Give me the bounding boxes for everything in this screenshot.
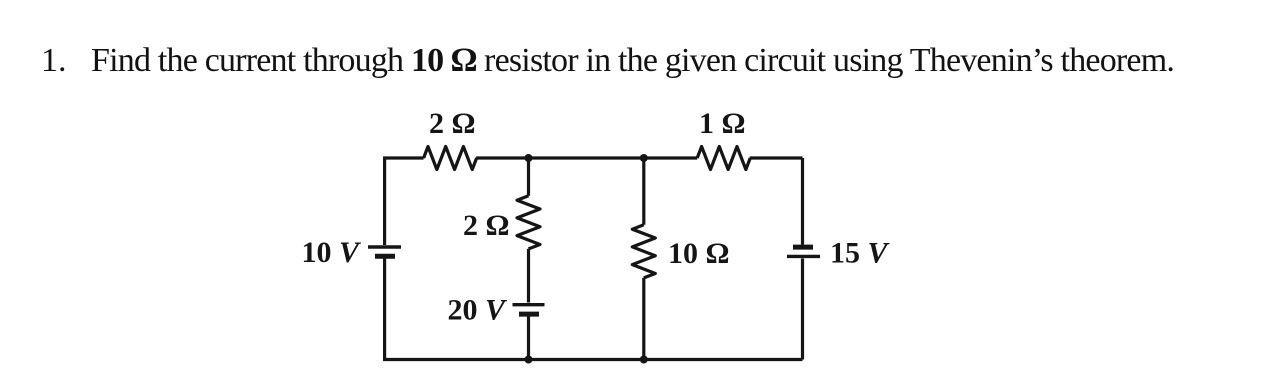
- svg-text:2 Ω: 2 Ω: [429, 107, 476, 140]
- svg-text:20 V: 20 V: [447, 294, 508, 327]
- svg-text:15 V: 15 V: [830, 237, 891, 270]
- svg-text:2 Ω: 2 Ω: [463, 209, 510, 242]
- svg-text:1 Ω: 1 Ω: [699, 107, 746, 140]
- svg-text:10 Ω: 10 Ω: [668, 237, 730, 270]
- svg-text:10 V: 10 V: [301, 236, 362, 269]
